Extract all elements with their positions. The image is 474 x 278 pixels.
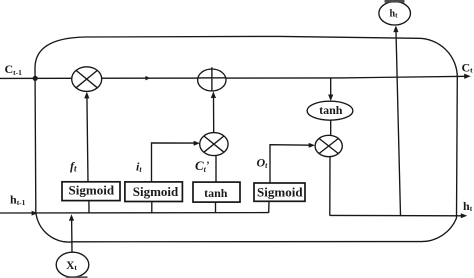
svg-text:Sigmoid: Sigmoid (69, 183, 115, 198)
svg-text:Sigmoid: Sigmoid (133, 184, 179, 199)
svg-text:Sigmoid: Sigmoid (257, 184, 303, 199)
svg-text:Ct’: Ct’ (195, 158, 209, 174)
svg-text:tanh: tanh (204, 186, 228, 200)
svg-text:tanh: tanh (319, 103, 343, 117)
